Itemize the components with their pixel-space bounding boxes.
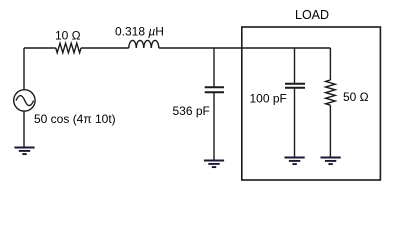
resistor 50 Ω bbox=[326, 80, 336, 105]
load box bbox=[242, 27, 381, 180]
ground: 536 pF capacitor bbox=[204, 161, 224, 168]
svg-text:536 pF: 536 pF bbox=[173, 104, 210, 118]
svg-text:10 Ω: 10 Ω bbox=[55, 29, 81, 43]
voltage source 50 cos (4π 10t) bbox=[14, 90, 35, 111]
wire: source bottom lead bbox=[23, 111, 25, 147]
svg-text:0.318 µH: 0.318 µH bbox=[115, 25, 164, 39]
wire: source top lead bbox=[23, 48, 25, 90]
ground: 50 Ω resistor bbox=[321, 158, 341, 165]
svg-text:50 Ω: 50 Ω bbox=[343, 90, 369, 104]
wire: 536 pF capacitor top lead bbox=[213, 48, 215, 86]
wire: 10 Ω resistor to 0.318 µH inductor bbox=[81, 47, 129, 49]
wire: 100 pF capacitor bottom lead bbox=[294, 89, 296, 158]
wire: inductor to load branch corner bbox=[159, 47, 331, 49]
wire: 50 Ω resistor bottom lead bbox=[329, 105, 331, 157]
wire: 536 pF capacitor bottom lead bbox=[213, 93, 215, 160]
wire: 100 pF capacitor top lead bbox=[294, 48, 296, 83]
ground: 100 pF capacitor bbox=[285, 158, 305, 165]
capacitor 536 pF bbox=[205, 87, 224, 92]
wire: corner down to 50 Ω resistor bbox=[329, 48, 331, 80]
svg-text:50 cos (4π 10t): 50 cos (4π 10t) bbox=[34, 112, 116, 126]
resistor 10 Ω bbox=[56, 43, 81, 53]
ground: source bbox=[14, 148, 34, 155]
wire: top rail, source to 10 Ω resistor bbox=[24, 47, 56, 49]
capacitor 100 pF bbox=[285, 84, 305, 88]
svg-text:LOAD: LOAD bbox=[295, 8, 329, 22]
svg-text:100 pF: 100 pF bbox=[250, 92, 287, 106]
inductor 0.318 µH bbox=[129, 40, 159, 48]
